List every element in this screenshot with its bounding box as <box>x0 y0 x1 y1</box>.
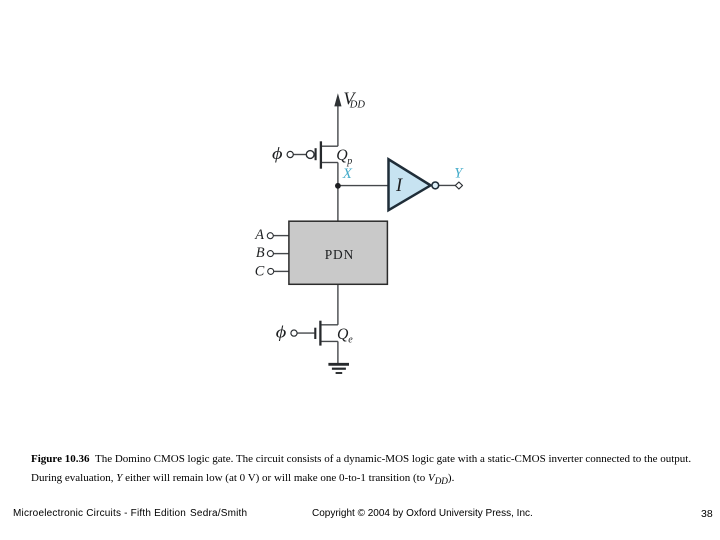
svg-text:A: A <box>254 227 264 243</box>
svg-text:ϕ: ϕ <box>276 322 287 341</box>
svg-text:DD: DD <box>349 100 366 111</box>
svg-text:C: C <box>255 263 265 279</box>
svg-text:e: e <box>348 334 353 345</box>
svg-text:Y: Y <box>454 166 464 182</box>
svg-text:ϕ: ϕ <box>272 144 283 163</box>
svg-text:Q: Q <box>337 326 349 343</box>
svg-text:PDN: PDN <box>325 247 355 262</box>
svg-text:X: X <box>342 166 353 182</box>
svg-text:B: B <box>256 245 265 261</box>
svg-text:I: I <box>395 176 403 196</box>
